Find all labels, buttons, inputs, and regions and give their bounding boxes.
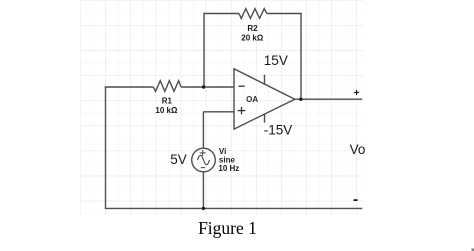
svg-text:R1: R1: [162, 96, 173, 105]
pin: positive supply pin: [264, 75, 266, 85]
source polarity minus: [201, 167, 205, 169]
node A: junction of R1, R2 and inverting input: [202, 85, 205, 88]
source V1: sine voltage source circle: [192, 148, 216, 172]
svg-text:10 Hz: 10 Hz: [218, 164, 239, 173]
source polarity plus: [200, 150, 206, 156]
svg-text:OA: OA: [246, 95, 258, 104]
wire: output of op-amp to + terminal: [295, 98, 363, 100]
svg-text:10 kΩ: 10 kΩ: [155, 106, 178, 115]
svg-text:R2: R2: [247, 24, 258, 33]
wire: left vertical from R1 lead down to bottom rail: [105, 87, 107, 208]
svg-text:Figure 1: Figure 1: [198, 218, 257, 238]
node: source to bottom rail junction: [202, 207, 205, 210]
wire: vertical from + input down to source: [202, 112, 204, 149]
corner mark bottom right: [472, 248, 474, 251]
pin: negative supply pin: [264, 114, 266, 123]
wire: feedback left vertical: [203, 14, 205, 88]
svg-text:15V: 15V: [264, 53, 288, 68]
node: output junction with feedback: [299, 98, 302, 101]
wire: bottom rail: [105, 207, 363, 209]
svg-text:+: +: [354, 87, 360, 99]
wire: feedback top right segment: [267, 13, 302, 15]
wire: non-inverting input horizontal: [203, 111, 234, 113]
source sine waveform: [198, 155, 210, 164]
wire: feedback right vertical down to output node: [300, 14, 302, 100]
svg-text:20 kΩ: 20 kΩ: [241, 34, 264, 43]
svg-text:-15V: -15V: [264, 122, 293, 137]
op-amp U1 triangle: [234, 69, 295, 129]
svg-text:5V: 5V: [170, 152, 187, 167]
wire: R1 right lead to op-amp inverting input: [181, 86, 234, 88]
svg-text:Vo: Vo: [350, 142, 366, 157]
wire: R1 left lead: [105, 86, 154, 88]
wire: from source bottom to bottom rail: [202, 172, 204, 209]
resistor R1: [153, 81, 181, 92]
label: output - terminal: [354, 199, 358, 201]
wire: feedback top left segment: [203, 13, 239, 15]
pin: non-inverting input plus mark: [238, 107, 246, 114]
resistor R2: [239, 9, 267, 19]
svg-text:sine: sine: [219, 155, 236, 164]
pin: inverting input minus mark: [238, 85, 244, 87]
